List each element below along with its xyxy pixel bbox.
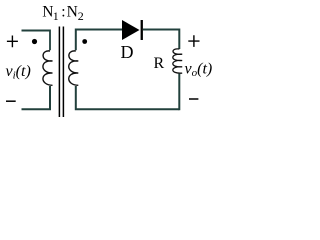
inductor secondary winding L2 xyxy=(69,51,79,85)
transformer core lines xyxy=(59,27,63,118)
svg-text:R: R xyxy=(154,55,165,72)
svg-text:N1:N2: N1:N2 xyxy=(42,4,84,23)
minus sign input xyxy=(6,100,16,102)
plus sign output xyxy=(188,35,199,47)
polarity dot primary xyxy=(32,39,37,44)
wire secondary top corner xyxy=(76,30,122,51)
wire right vertical bottom xyxy=(178,74,180,111)
wire primary bottom corner xyxy=(22,86,51,109)
polarity dot secondary xyxy=(82,39,87,44)
wire secondary bottom + bottom rail xyxy=(76,86,180,109)
inductor primary winding L1 xyxy=(43,51,53,85)
wire primary top corner down xyxy=(49,30,51,51)
resistor R body xyxy=(173,49,182,73)
diode D triangle xyxy=(122,20,140,40)
svg-text:D: D xyxy=(121,42,134,62)
svg-text:vi(t): vi(t) xyxy=(6,63,31,82)
wire right vertical top xyxy=(178,29,180,50)
diode D cathode bar xyxy=(141,20,143,40)
wire diode cathode to right corner xyxy=(143,29,179,31)
minus sign output xyxy=(189,98,198,100)
plus sign input xyxy=(7,36,18,48)
svg-text:vo(t): vo(t) xyxy=(185,61,213,80)
wire primary top stub xyxy=(22,30,51,32)
